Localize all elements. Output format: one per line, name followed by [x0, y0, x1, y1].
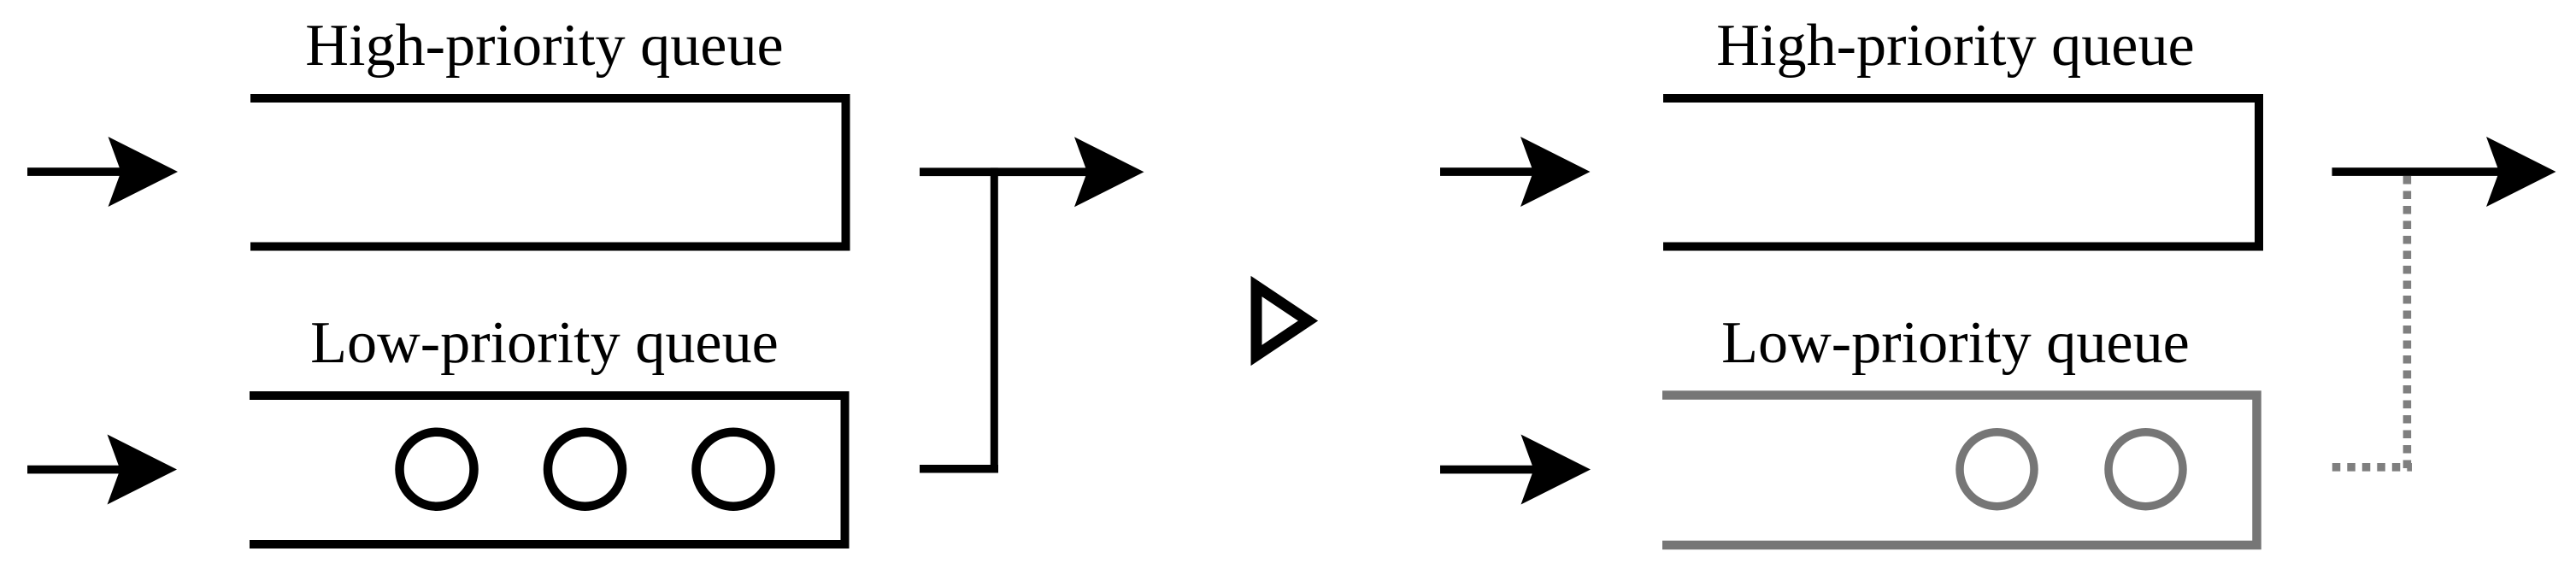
packet circle 3 in left low queue	[697, 432, 771, 507]
gray packet circle 2 in right low queue	[2108, 432, 2183, 507]
packet circle 1 in left low queue	[400, 432, 474, 507]
svg-text:High-priority queue: High-priority queue	[305, 12, 783, 79]
input arrow to right high-priority queue	[1440, 137, 1591, 207]
input arrow to left low-priority queue	[27, 435, 177, 505]
high-priority queue (left), open-left rectangle	[250, 98, 846, 247]
input arrow to left high-priority queue	[27, 137, 178, 207]
output arrow of right system	[2332, 137, 2556, 207]
high-priority queue (right), open-left rectangle	[1663, 98, 2259, 247]
merge: horizontal line from low queue output	[920, 465, 998, 473]
packet circle 2 in left low queue	[548, 432, 622, 507]
dotted gray vertical line up to output line	[2403, 176, 2412, 472]
input arrow to right low-priority queue	[1440, 435, 1591, 505]
low-priority queue (left), open-left rectangle	[250, 396, 845, 544]
output arrow of left system	[920, 137, 1144, 207]
svg-text:High-priority queue: High-priority queue	[1716, 12, 2194, 79]
gray packet circle 1 in right low queue	[1960, 432, 2034, 507]
merge: vertical line joining low output to high output	[991, 167, 998, 472]
transition triangle (outline, points right)	[1256, 286, 1309, 355]
svg-text:Low-priority queue: Low-priority queue	[1721, 309, 2190, 376]
low-priority queue (right), gray open-left rectangle	[1662, 396, 2257, 546]
svg-text:Low-priority queue: Low-priority queue	[310, 309, 779, 376]
dotted gray horizontal line from right low queue output	[2332, 463, 2412, 472]
